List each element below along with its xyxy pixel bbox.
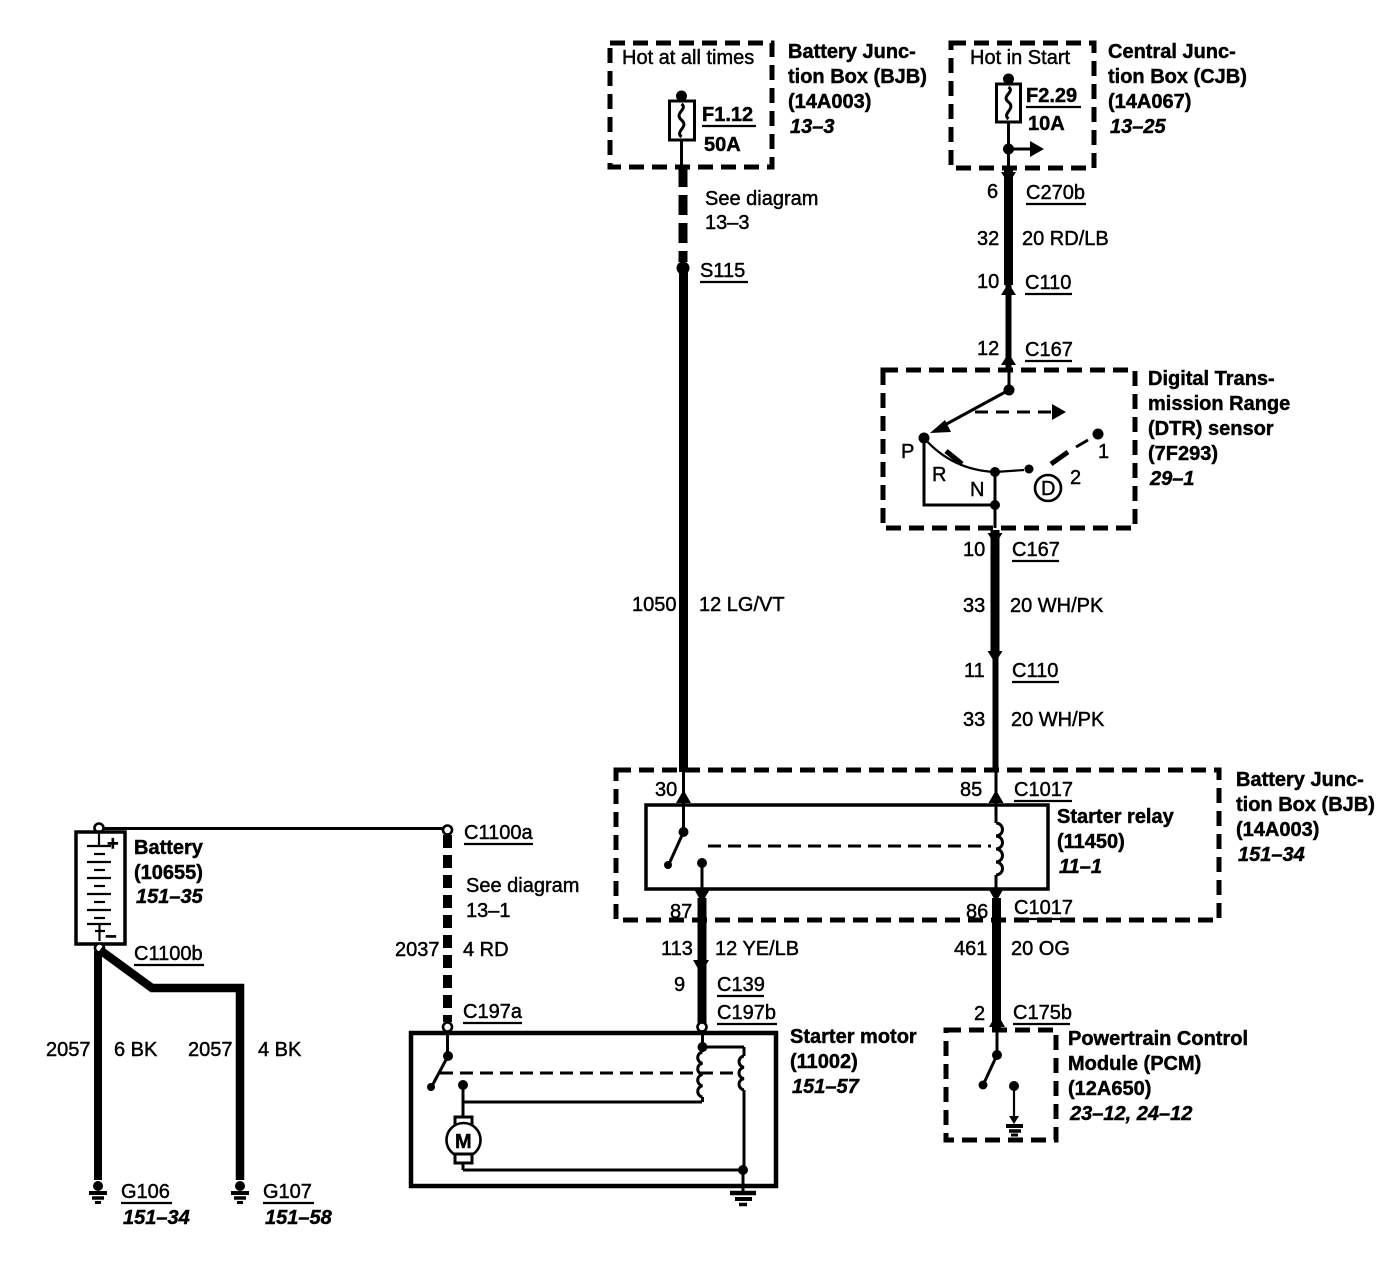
svg-text:Battery Junc-: Battery Junc- <box>788 41 916 63</box>
battery bottom terminal <box>95 944 104 953</box>
connector C1100b <box>134 943 204 965</box>
BJB main dashed box <box>616 770 1219 920</box>
svg-text:(14A003): (14A003) <box>1236 819 1319 841</box>
contact R tick <box>946 451 962 464</box>
svg-text:30: 30 <box>655 779 677 801</box>
svg-text:C1100b: C1100b <box>134 943 203 965</box>
svg-text:23–12, 24–12: 23–12, 24–12 <box>1069 1103 1192 1125</box>
svg-text:C197a: C197a <box>463 1001 523 1023</box>
svg-text:85: 85 <box>960 779 982 801</box>
svg-text:C167: C167 <box>1025 339 1073 361</box>
svg-text:10: 10 <box>963 539 985 561</box>
wire P down and across to N output <box>924 438 995 505</box>
svg-text:1050: 1050 <box>632 594 677 616</box>
svg-text:S115: S115 <box>700 260 745 282</box>
svg-text:1: 1 <box>1098 441 1109 463</box>
ground wire left (2057 6 BK) <box>94 951 102 1180</box>
svg-text:12 LG/VT: 12 LG/VT <box>699 594 785 616</box>
starter switch output node <box>458 1080 468 1117</box>
svg-text:2: 2 <box>974 1003 985 1025</box>
label Powertrain Control Module <box>1068 1028 1248 1125</box>
svg-text:See diagram: See diagram <box>705 188 818 210</box>
connector C167 below DTR (pin 10) <box>963 533 1060 561</box>
ground G107 <box>231 1181 333 1229</box>
relay linkage dashed <box>708 845 991 848</box>
wire junction to ground <box>742 1170 745 1192</box>
wire into DTR <box>1008 370 1011 390</box>
wire CJB down to connector C270b <box>1001 172 1016 184</box>
connector C197a <box>443 1001 523 1032</box>
fuse F2.29 <box>997 74 1082 136</box>
svg-text:See diagram: See diagram <box>466 875 579 897</box>
svg-text:C1100a: C1100a <box>464 822 533 844</box>
wire fuse F1.12 to box bottom <box>680 140 683 167</box>
svg-text:12: 12 <box>977 338 999 360</box>
svg-text:G106: G106 <box>121 1181 170 1203</box>
svg-text:−: − <box>105 926 117 948</box>
wire S115 down to relay pin 30 (1050 12 LG/VT) <box>679 268 688 772</box>
svg-text:Digital Trans-: Digital Trans- <box>1148 368 1275 390</box>
svg-text:tion Box (BJB): tion Box (BJB) <box>1236 794 1375 816</box>
wire C110 to C167 <box>1006 285 1012 370</box>
svg-text:(11002): (11002) <box>790 1051 858 1073</box>
svg-text:D: D <box>1041 478 1055 500</box>
svg-text:C1017: C1017 <box>1014 897 1073 919</box>
svg-text:6: 6 <box>987 181 998 203</box>
svg-text:Hot at all times: Hot at all times <box>622 47 754 69</box>
svg-text:M: M <box>455 1131 472 1153</box>
svg-text:(DTR) sensor: (DTR) sensor <box>1148 418 1274 440</box>
wire C1100a dashed down to C197a (2037 4 RD) <box>443 835 452 1022</box>
svg-text:Central Junc-: Central Junc- <box>1108 41 1236 63</box>
svg-text:(14A003): (14A003) <box>788 91 871 113</box>
wire DTR to C110 (33 20 WH/PK) <box>991 530 1000 655</box>
svg-text:50A: 50A <box>704 134 741 156</box>
fuse F1.12 <box>670 91 757 157</box>
svg-text:461: 461 <box>954 938 987 960</box>
svg-text:151–34: 151–34 <box>1238 844 1305 866</box>
svg-text:2057: 2057 <box>188 1039 233 1061</box>
motor M <box>447 1117 481 1163</box>
solenoid coil 1 <box>698 1047 703 1102</box>
connector C110 (pin 10) <box>977 271 1072 295</box>
contact arc P to N to D <box>924 438 1024 472</box>
BJB top dashed box (Hot at all times) <box>610 43 772 167</box>
svg-text:6 BK: 6 BK <box>114 1039 158 1061</box>
svg-text:(10655): (10655) <box>134 862 203 884</box>
svg-text:86: 86 <box>966 901 988 923</box>
svg-text:C175b: C175b <box>1013 1002 1072 1024</box>
svg-text:4 BK: 4 BK <box>258 1039 302 1061</box>
svg-text:151–58: 151–58 <box>265 1207 333 1229</box>
svg-text:33: 33 <box>963 595 985 617</box>
svg-text:151–35: 151–35 <box>136 886 204 908</box>
relay switch <box>664 805 689 869</box>
svg-text:13–3: 13–3 <box>790 116 835 138</box>
contact P <box>919 433 930 444</box>
pin 30 entry <box>655 770 691 805</box>
node selector pivot <box>1004 385 1015 396</box>
PCM ground symbol <box>1006 1116 1023 1135</box>
connector C175b (pin 2) <box>974 1002 1072 1027</box>
position letters <box>901 441 1109 501</box>
ground G106 <box>89 1181 190 1229</box>
PCM dashed box <box>946 1030 1056 1140</box>
wire C110 down to BJB (33 20 WH/PK) <box>993 655 999 772</box>
bottom rail junction <box>738 1165 748 1175</box>
svg-text:Battery: Battery <box>134 837 204 859</box>
starter relay solid box <box>646 805 1048 889</box>
svg-text:Starter relay: Starter relay <box>1057 806 1175 828</box>
svg-text:(11450): (11450) <box>1057 831 1125 853</box>
pin 85 entry <box>960 770 1073 805</box>
label Battery Junction Box (BJB) top <box>788 41 927 138</box>
label Starter motor <box>790 1026 917 1098</box>
svg-text:(14A067): (14A067) <box>1108 91 1191 113</box>
svg-text:151–34: 151–34 <box>123 1207 190 1229</box>
svg-text:P: P <box>901 441 914 463</box>
wire 86 to PCM (461 20 OG) <box>992 898 1001 1030</box>
svg-text:2: 2 <box>1070 467 1081 489</box>
starter ground <box>730 1193 756 1205</box>
label Central Junction Box (CJB) <box>1108 41 1247 138</box>
label See diagram 13-3 <box>705 188 818 234</box>
svg-text:13–3: 13–3 <box>705 212 750 234</box>
svg-text:G107: G107 <box>263 1181 312 1203</box>
pin 87 exit <box>670 890 710 923</box>
wire N down <box>994 472 997 528</box>
svg-text:2037: 2037 <box>395 939 440 961</box>
relay pin 87 contact <box>697 858 707 889</box>
svg-text:C110: C110 <box>1012 660 1058 682</box>
D circle <box>1035 475 1061 501</box>
svg-text:12 YE/LB: 12 YE/LB <box>715 938 799 960</box>
svg-text:87: 87 <box>670 901 692 923</box>
wire motor to bottom rail <box>463 1163 743 1170</box>
svg-text:20 RD/LB: 20 RD/LB <box>1022 228 1109 250</box>
relay coil <box>996 805 1003 889</box>
node N <box>990 467 1000 477</box>
svg-text:20 OG: 20 OG <box>1011 938 1070 960</box>
branch arrow right inside CJB <box>1003 141 1044 157</box>
svg-text:tion Box (BJB): tion Box (BJB) <box>788 66 927 88</box>
wire 87 to starter motor (113 12 YE/LB) <box>698 898 707 1029</box>
svg-text:151–57: 151–57 <box>792 1076 860 1098</box>
DTR sensor dashed box <box>883 370 1135 528</box>
svg-text:R: R <box>932 464 946 486</box>
ground wire right (2057 4 BK) <box>100 950 240 1180</box>
svg-text:Module (PCM): Module (PCM) <box>1068 1053 1201 1075</box>
label Battery Junction Box (BJB) bottom <box>1236 769 1375 866</box>
svg-text:20 WH/PK: 20 WH/PK <box>1010 595 1104 617</box>
svg-text:13–25: 13–25 <box>1110 116 1166 138</box>
starter switch <box>427 1033 453 1091</box>
svg-text:N: N <box>970 479 984 501</box>
svg-text:10: 10 <box>977 271 999 293</box>
label Battery <box>134 837 204 908</box>
solenoid coil 2 branch <box>703 1047 745 1170</box>
splice S115 <box>677 260 749 282</box>
contact 1 <box>1093 429 1104 440</box>
svg-text:9: 9 <box>674 974 685 996</box>
svg-text:2057: 2057 <box>46 1039 91 1061</box>
connector C197b entry circle <box>698 1023 707 1032</box>
svg-text:10A: 10A <box>1028 113 1065 135</box>
solenoid linkage dashed <box>440 1072 740 1075</box>
contact 2 tick <box>1051 452 1068 464</box>
wire fuse F2.29 down through box <box>1007 122 1010 168</box>
svg-text:(7F293): (7F293) <box>1148 443 1218 465</box>
label Starter relay <box>1057 806 1175 878</box>
svg-text:Battery Junc-: Battery Junc- <box>1236 769 1364 791</box>
svg-text:20 WH/PK: 20 WH/PK <box>1011 709 1105 731</box>
svg-text:Powertrain Control: Powertrain Control <box>1068 1028 1248 1050</box>
pin 86 exit <box>966 889 1073 923</box>
junction under N <box>990 500 1000 510</box>
svg-text:+: + <box>107 833 119 855</box>
svg-text:29–1: 29–1 <box>1149 468 1195 490</box>
svg-text:tion Box (CJB): tion Box (CJB) <box>1108 66 1247 88</box>
svg-text:C167: C167 <box>1012 539 1060 561</box>
svg-text:C110: C110 <box>1025 272 1071 294</box>
battery box <box>76 832 125 944</box>
PCM switch <box>979 1030 1003 1090</box>
PCM ground contact <box>1009 1081 1019 1117</box>
svg-text:C1017: C1017 <box>1014 779 1073 801</box>
svg-text:32: 32 <box>977 228 999 250</box>
battery top terminal <box>95 824 104 833</box>
svg-text:11: 11 <box>964 660 985 682</box>
wire battery to C1100a <box>104 827 443 830</box>
solenoid entry node <box>698 1033 708 1052</box>
label Digital Transmission Range sensor <box>1148 368 1290 490</box>
svg-text:4 RD: 4 RD <box>463 939 509 961</box>
selector arm with arrowhead <box>930 390 1009 433</box>
svg-text:mission Range: mission Range <box>1148 393 1290 415</box>
svg-text:Hot in Start: Hot in Start <box>970 47 1070 69</box>
wire label 32 20 RD/LB <box>977 228 1109 250</box>
svg-text:Starter motor: Starter motor <box>790 1026 917 1048</box>
starter motor solid box <box>411 1033 776 1186</box>
connector C167 (pin 12) <box>977 338 1073 365</box>
connector C110 (pin 11) <box>964 651 1059 682</box>
arc dash toward 1 <box>1076 440 1088 447</box>
svg-text:C197b: C197b <box>717 1002 776 1024</box>
svg-text:F2.29: F2.29 <box>1026 85 1077 107</box>
svg-text:C139: C139 <box>717 974 765 996</box>
wire node to coil bottom <box>463 1101 702 1104</box>
svg-text:11–1: 11–1 <box>1059 856 1102 878</box>
svg-text:13–1: 13–1 <box>466 900 511 922</box>
battery plates <box>87 833 119 948</box>
CJB top dashed box (Hot in Start) <box>951 43 1094 168</box>
connector C270b <box>987 181 1086 204</box>
wire BJB fuse output dashed down to S115 <box>679 167 688 262</box>
connector C139/C197b (pin 9) <box>674 960 777 1024</box>
dashed direction arrow <box>975 404 1066 420</box>
svg-text:F1.12: F1.12 <box>702 104 753 126</box>
connector C1100a <box>443 822 533 844</box>
svg-text:C270b: C270b <box>1026 182 1085 204</box>
svg-text:113: 113 <box>661 938 693 960</box>
contact dot near D <box>1025 465 1034 474</box>
svg-text:33: 33 <box>963 709 985 731</box>
svg-text:(12A650): (12A650) <box>1068 1078 1151 1100</box>
